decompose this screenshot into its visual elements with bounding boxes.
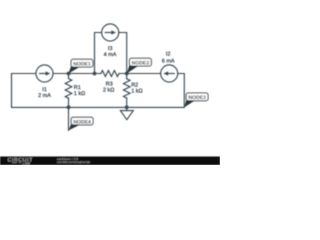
svg-text:1 kΩ: 1 kΩ [131,89,142,95]
svg-text:1 kΩ: 1 kΩ [74,91,85,97]
svg-text:I1: I1 [42,87,47,93]
svg-text:NODE2: NODE2 [132,60,150,66]
svg-text:4 mA: 4 mA [104,52,117,58]
svg-text:2 mA: 2 mA [38,93,51,99]
svg-text:6 mA: 6 mA [162,58,175,64]
svg-text:R1: R1 [74,85,81,91]
svg-text:NODE3: NODE3 [188,95,206,101]
svg-text:circuitlab.com/c/csq5vw7gh: circuitlab.com/c/csq5vw7gh [57,160,90,164]
svg-text:NODE1: NODE1 [73,61,91,67]
svg-text:LAB: LAB [23,160,31,165]
svg-text:2 kΩ: 2 kΩ [103,88,114,94]
svg-text:I2: I2 [166,52,171,58]
svg-text:I3: I3 [108,46,113,52]
svg-text:R2: R2 [131,82,138,88]
svg-text:NODE4: NODE4 [73,119,91,125]
